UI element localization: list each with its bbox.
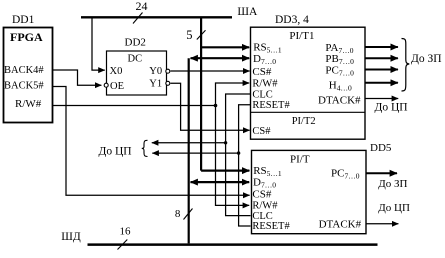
svg-text:DD2: DD2: [125, 36, 146, 48]
svg-text:До ЦП: До ЦП: [375, 102, 408, 114]
svg-text:ША: ША: [237, 6, 258, 18]
svg-text:16: 16: [120, 226, 132, 238]
svg-text:DTACK#: DTACK#: [319, 218, 362, 230]
svg-text:RESET#: RESET#: [252, 221, 290, 232]
svg-text:До ЗП: До ЗП: [378, 178, 407, 190]
svg-text:PI/T2: PI/T2: [292, 116, 316, 127]
svg-text:DD1: DD1: [12, 14, 35, 26]
svg-text:ШД: ШД: [61, 231, 81, 243]
svg-text:CLC: CLC: [252, 90, 272, 101]
svg-text:5: 5: [186, 28, 192, 42]
svg-text:8: 8: [175, 208, 181, 220]
svg-text:PC7…0: PC7…0: [331, 168, 360, 181]
svg-text:CS#: CS#: [252, 126, 271, 137]
svg-text:PC7…0: PC7…0: [325, 65, 354, 78]
svg-text:R/W#: R/W#: [15, 98, 42, 110]
svg-text:H4…0: H4…0: [329, 79, 352, 92]
svg-text:BACK5#: BACK5#: [4, 80, 44, 91]
svg-text:DD3, 4: DD3, 4: [275, 14, 309, 26]
svg-text:OE: OE: [110, 81, 124, 92]
svg-text:До ЦП: До ЦП: [378, 202, 410, 214]
svg-text:Y1: Y1: [149, 78, 162, 89]
svg-text:PI/T: PI/T: [290, 153, 310, 165]
svg-text:CLC: CLC: [252, 211, 272, 222]
svg-text:До ЦП: До ЦП: [99, 145, 132, 157]
svg-text:R/W#: R/W#: [252, 79, 278, 90]
svg-text:RESET#: RESET#: [252, 100, 290, 111]
svg-text:D7…0: D7…0: [253, 176, 276, 189]
svg-text:CS#: CS#: [252, 189, 271, 201]
svg-text:DC: DC: [128, 54, 143, 65]
svg-text:24: 24: [136, 0, 148, 13]
svg-text:X0: X0: [110, 66, 123, 77]
svg-text:DD5: DD5: [370, 142, 392, 154]
svg-text:BACK4#: BACK4#: [4, 65, 44, 76]
svg-text:Y0: Y0: [149, 66, 162, 77]
svg-text:D7…0: D7…0: [253, 53, 276, 66]
svg-text:CS#: CS#: [252, 66, 271, 78]
svg-text:FPGA: FPGA: [10, 30, 43, 44]
svg-text:DTACK#: DTACK#: [318, 94, 361, 106]
svg-text:PI/T1: PI/T1: [289, 30, 314, 42]
svg-text:До ЗП: До ЗП: [411, 53, 442, 65]
